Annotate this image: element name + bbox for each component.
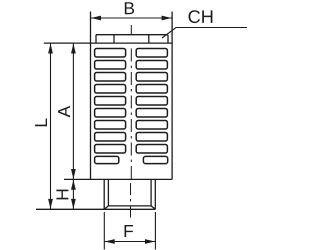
centerline tick above cap — [130, 25, 132, 35]
body shoulder line (top of A/L, merges with left extension) — [44, 42, 172, 44]
F extension line left — [103, 212, 105, 250]
stem thread inner right — [150, 179, 152, 206]
slot row6 left — [95, 109, 126, 118]
slot row10 right (short) — [143, 156, 167, 163]
arrow L bottom — [48, 199, 53, 209]
slot row4 left — [95, 85, 126, 94]
body left edge (also B extension line) — [90, 12, 92, 180]
slot row6 right — [136, 109, 167, 118]
body bottom edge + H top extension — [64, 178, 172, 180]
arrow A top — [71, 44, 76, 54]
vertical centerline — [130, 25, 133, 218]
cap top edge — [96, 34, 168, 36]
slot row3 left — [95, 73, 126, 82]
slot row4 right — [136, 85, 167, 94]
stem thread inner left — [107, 179, 109, 206]
slot row8 left — [95, 133, 126, 142]
slot row5 right — [136, 97, 167, 106]
slot row1 right — [136, 49, 167, 58]
centerline dash-dot through stem — [130, 183, 132, 218]
arrow F left — [105, 239, 115, 244]
stem chamfer right — [151, 206, 155, 209]
dimension A — [72, 43, 74, 179]
cap chamfer vertical right-outer — [167, 35, 169, 43]
cap chamfer vertical right-inner — [148, 35, 150, 43]
centerline dash-dot through body — [130, 49, 132, 180]
dimension L — [50, 43, 52, 209]
label H — [56, 190, 68, 200]
slot row7 right — [136, 121, 167, 130]
slot row5 left — [95, 97, 126, 106]
arrow B right — [162, 16, 172, 21]
slot row3 right — [136, 73, 167, 82]
label CH — [189, 10, 213, 23]
cap chamfer vertical left-inner — [113, 35, 115, 43]
slot row10 left (short) — [95, 156, 119, 163]
slot row2 right — [136, 61, 167, 70]
slot row2 left — [95, 61, 126, 70]
label B — [125, 2, 134, 14]
slot row1 left — [95, 49, 126, 58]
cap chamfer vertical left-outer — [95, 35, 97, 43]
slot row9 right — [136, 145, 167, 154]
F dimension line — [104, 241, 155, 243]
arrow A bottom — [71, 169, 76, 179]
leader CH — [162, 28, 247, 39]
label F — [125, 225, 134, 237]
label A — [58, 106, 70, 118]
slot row8 right — [136, 133, 167, 142]
dimension B — [91, 17, 173, 19]
arrow H bottom — [71, 199, 76, 209]
arrow F right — [145, 239, 155, 244]
slot row7 left — [95, 121, 126, 130]
vent slots: 10 rows x 2 columns — [95, 49, 168, 164]
arrow L top — [48, 44, 53, 54]
body right edge (also B extension line) — [171, 12, 173, 180]
arrow B left — [91, 16, 101, 21]
stem chamfer left — [104, 206, 108, 209]
arrow H top — [71, 180, 76, 190]
F extension line right — [154, 212, 156, 250]
label L — [35, 119, 47, 127]
stem outer left — [103, 179, 105, 209]
stem end face — [108, 205, 151, 207]
dimension H — [72, 179, 74, 209]
dimension F — [104, 212, 155, 250]
slot row9 left — [95, 145, 126, 154]
stem bottom line + L bottom extension — [36, 208, 155, 210]
stem outer right — [154, 179, 156, 209]
